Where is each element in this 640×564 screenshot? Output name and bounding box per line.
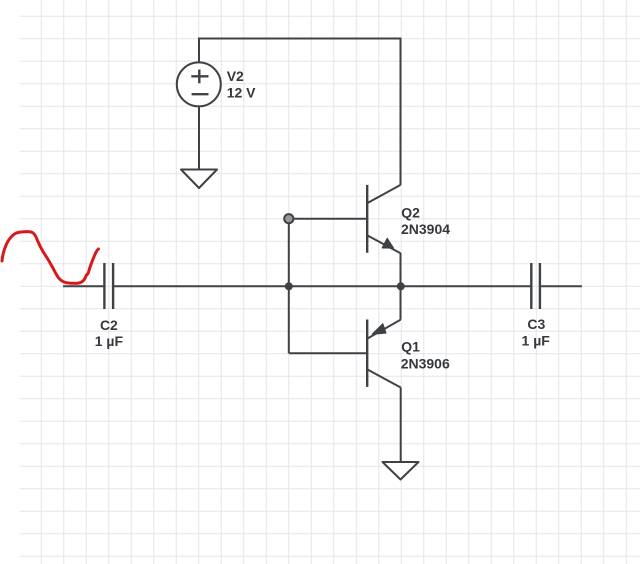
wire: Q2 base [289, 218, 367, 220]
svg-text:V2: V2 [227, 68, 244, 84]
svg-text:C3: C3 [527, 316, 545, 332]
ground under V2 [181, 170, 217, 189]
label Q1 2N3906 [401, 339, 450, 372]
label C3 1uF [522, 316, 551, 349]
wire: base bus vertical [288, 219, 290, 353]
wire: input stub left of C2 [63, 285, 104, 287]
label Q2 2N3904 [401, 204, 450, 237]
wire: stub right of C3 [540, 285, 582, 287]
label C2 1uF [95, 317, 124, 349]
wire: V2 to ground [198, 106, 200, 169]
node: gray dot on base bus [284, 214, 293, 223]
capacitor C3 [531, 263, 540, 309]
svg-text:2N3906: 2N3906 [401, 355, 450, 371]
wire: output bus [113, 285, 531, 287]
label V2 value [227, 68, 256, 101]
annotation: red hand-drawn sine wave [2, 232, 99, 284]
wire: Q1 base [289, 352, 367, 354]
wire: V2 top stub [198, 38, 200, 63]
wire: Q2 emitter to output node [400, 253, 402, 286]
wire: Q1 collector to ground [400, 388, 402, 463]
ground under Q1 [383, 462, 419, 480]
wire: rail drop to Q2 collector [400, 38, 402, 186]
svg-text:2N3904: 2N3904 [401, 221, 450, 237]
wire: output node to Q1 emitter [400, 286, 402, 320]
junction: emitters / output [397, 282, 405, 290]
wire: top rail from V2 to Q2 collector [199, 38, 401, 40]
voltage source V2 [177, 62, 221, 106]
capacitor C2 [104, 263, 113, 309]
svg-text:1 µF: 1 µF [522, 332, 551, 348]
svg-text:Q1: Q1 [401, 339, 420, 355]
junction: base bus / input [285, 282, 293, 290]
svg-text:C2: C2 [100, 317, 118, 333]
svg-text:Q2: Q2 [401, 204, 420, 220]
transistor Q1 [367, 320, 401, 388]
svg-text:1 µF: 1 µF [95, 333, 124, 349]
svg-text:12 V: 12 V [227, 85, 256, 101]
transistor Q2 [367, 185, 400, 253]
